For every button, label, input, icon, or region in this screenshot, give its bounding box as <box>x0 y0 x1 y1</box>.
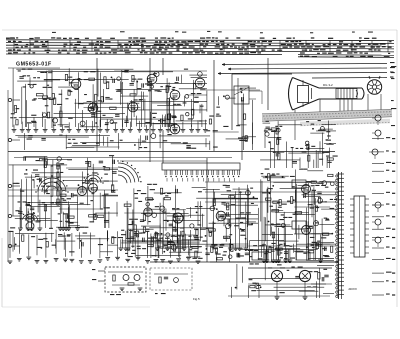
svg-text:Fig.5: Fig.5 <box>193 297 200 301</box>
svg-text:GM5653-01F: GM5653-01F <box>16 61 52 67</box>
svg-text:J20XX: J20XX <box>348 287 357 291</box>
svg-text:DG 3-2: DG 3-2 <box>323 83 333 87</box>
